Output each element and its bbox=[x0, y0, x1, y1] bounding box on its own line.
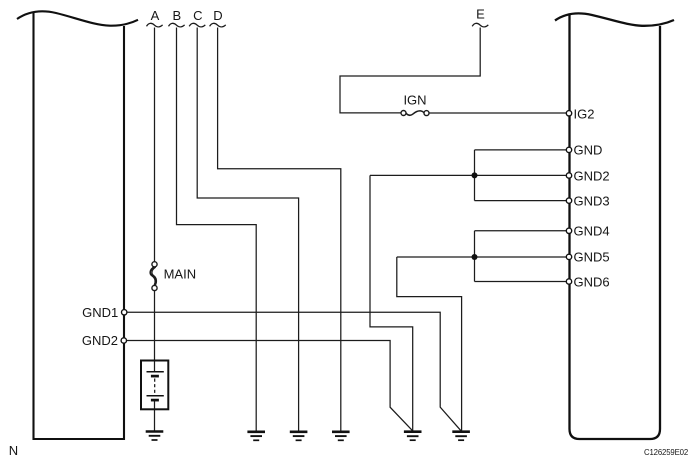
svg-text:D: D bbox=[213, 8, 222, 23]
ground (wire D) bbox=[332, 432, 350, 441]
battery bbox=[141, 361, 168, 410]
connector A break squiggle bbox=[147, 23, 163, 27]
svg-text:GND3: GND3 bbox=[574, 193, 610, 208]
junction GND2 bracket bbox=[472, 172, 478, 178]
svg-text:E: E bbox=[476, 7, 485, 22]
terminal GND5 bbox=[566, 254, 571, 259]
wire bracket GND-GND3 bbox=[474, 150, 476, 201]
wire C bbox=[197, 28, 298, 431]
terminal IG2 bbox=[566, 111, 571, 116]
wire GND2 branch bbox=[370, 174, 566, 176]
wire GND2 to ground bbox=[127, 341, 413, 431]
ground (GND1/GND5 net) bbox=[452, 432, 470, 441]
wire E (to IGN fuse) bbox=[340, 28, 480, 113]
svg-text:GND4: GND4 bbox=[574, 224, 610, 239]
left box (component block N) bbox=[17, 11, 138, 439]
connector B break squiggle bbox=[169, 23, 185, 27]
svg-text:MAIN: MAIN bbox=[164, 266, 197, 281]
svg-text:GND1: GND1 bbox=[82, 305, 118, 320]
terminal GND bbox=[566, 147, 571, 152]
svg-text:GND5: GND5 bbox=[574, 250, 610, 265]
svg-text:IG2: IG2 bbox=[574, 106, 595, 121]
fuse IGN bbox=[401, 111, 429, 116]
connector D break squiggle bbox=[210, 23, 226, 27]
wire GND4 stub bbox=[475, 230, 567, 232]
terminal GND2 bbox=[566, 173, 571, 178]
svg-text:B: B bbox=[172, 8, 181, 23]
ground (GND2 net) bbox=[404, 432, 422, 441]
svg-text:GND2: GND2 bbox=[574, 168, 610, 183]
svg-text:A: A bbox=[151, 8, 160, 23]
fuse MAIN (fusible link) bbox=[150, 262, 157, 291]
svg-text:GND2: GND2 bbox=[82, 333, 118, 348]
connector E break squiggle bbox=[472, 23, 488, 27]
wire B bbox=[177, 28, 257, 431]
wire bracket GND4-GND6 bbox=[474, 231, 476, 282]
wire GND stub bbox=[475, 149, 567, 151]
wire fuse IGN to IG2 bbox=[429, 112, 567, 114]
terminal GND3 bbox=[566, 198, 571, 203]
ground (wire B) bbox=[247, 432, 265, 441]
svg-text:N: N bbox=[9, 443, 18, 458]
connector C break squiggle bbox=[189, 23, 205, 27]
svg-text:C: C bbox=[193, 8, 202, 23]
terminal GND6 bbox=[566, 279, 571, 284]
svg-text:IGN: IGN bbox=[403, 93, 426, 108]
wire GND5 branch bbox=[397, 256, 567, 258]
right box (ECU block) bbox=[555, 13, 674, 439]
ground (wire C) bbox=[290, 432, 308, 441]
wire D bbox=[218, 28, 341, 431]
wire GND6 stub bbox=[475, 281, 567, 283]
terminal GND1 (left box) bbox=[122, 310, 127, 315]
terminal GND2 (left box) bbox=[121, 338, 126, 343]
junction GND5 bracket bbox=[472, 254, 478, 260]
wire A (from connector A through MAIN fuse to battery) bbox=[154, 28, 156, 431]
wire GND3 stub bbox=[475, 200, 567, 202]
wire GND2 branch to ground bbox=[370, 175, 413, 431]
terminal GND4 bbox=[566, 228, 571, 233]
svg-text:C126259E02: C126259E02 bbox=[644, 448, 688, 457]
wire GND1 to ground bbox=[127, 312, 461, 430]
svg-text:GND6: GND6 bbox=[574, 274, 610, 289]
svg-text:GND: GND bbox=[574, 143, 603, 158]
ground (battery) bbox=[146, 432, 164, 441]
wire GND5 branch to ground bbox=[397, 257, 462, 431]
